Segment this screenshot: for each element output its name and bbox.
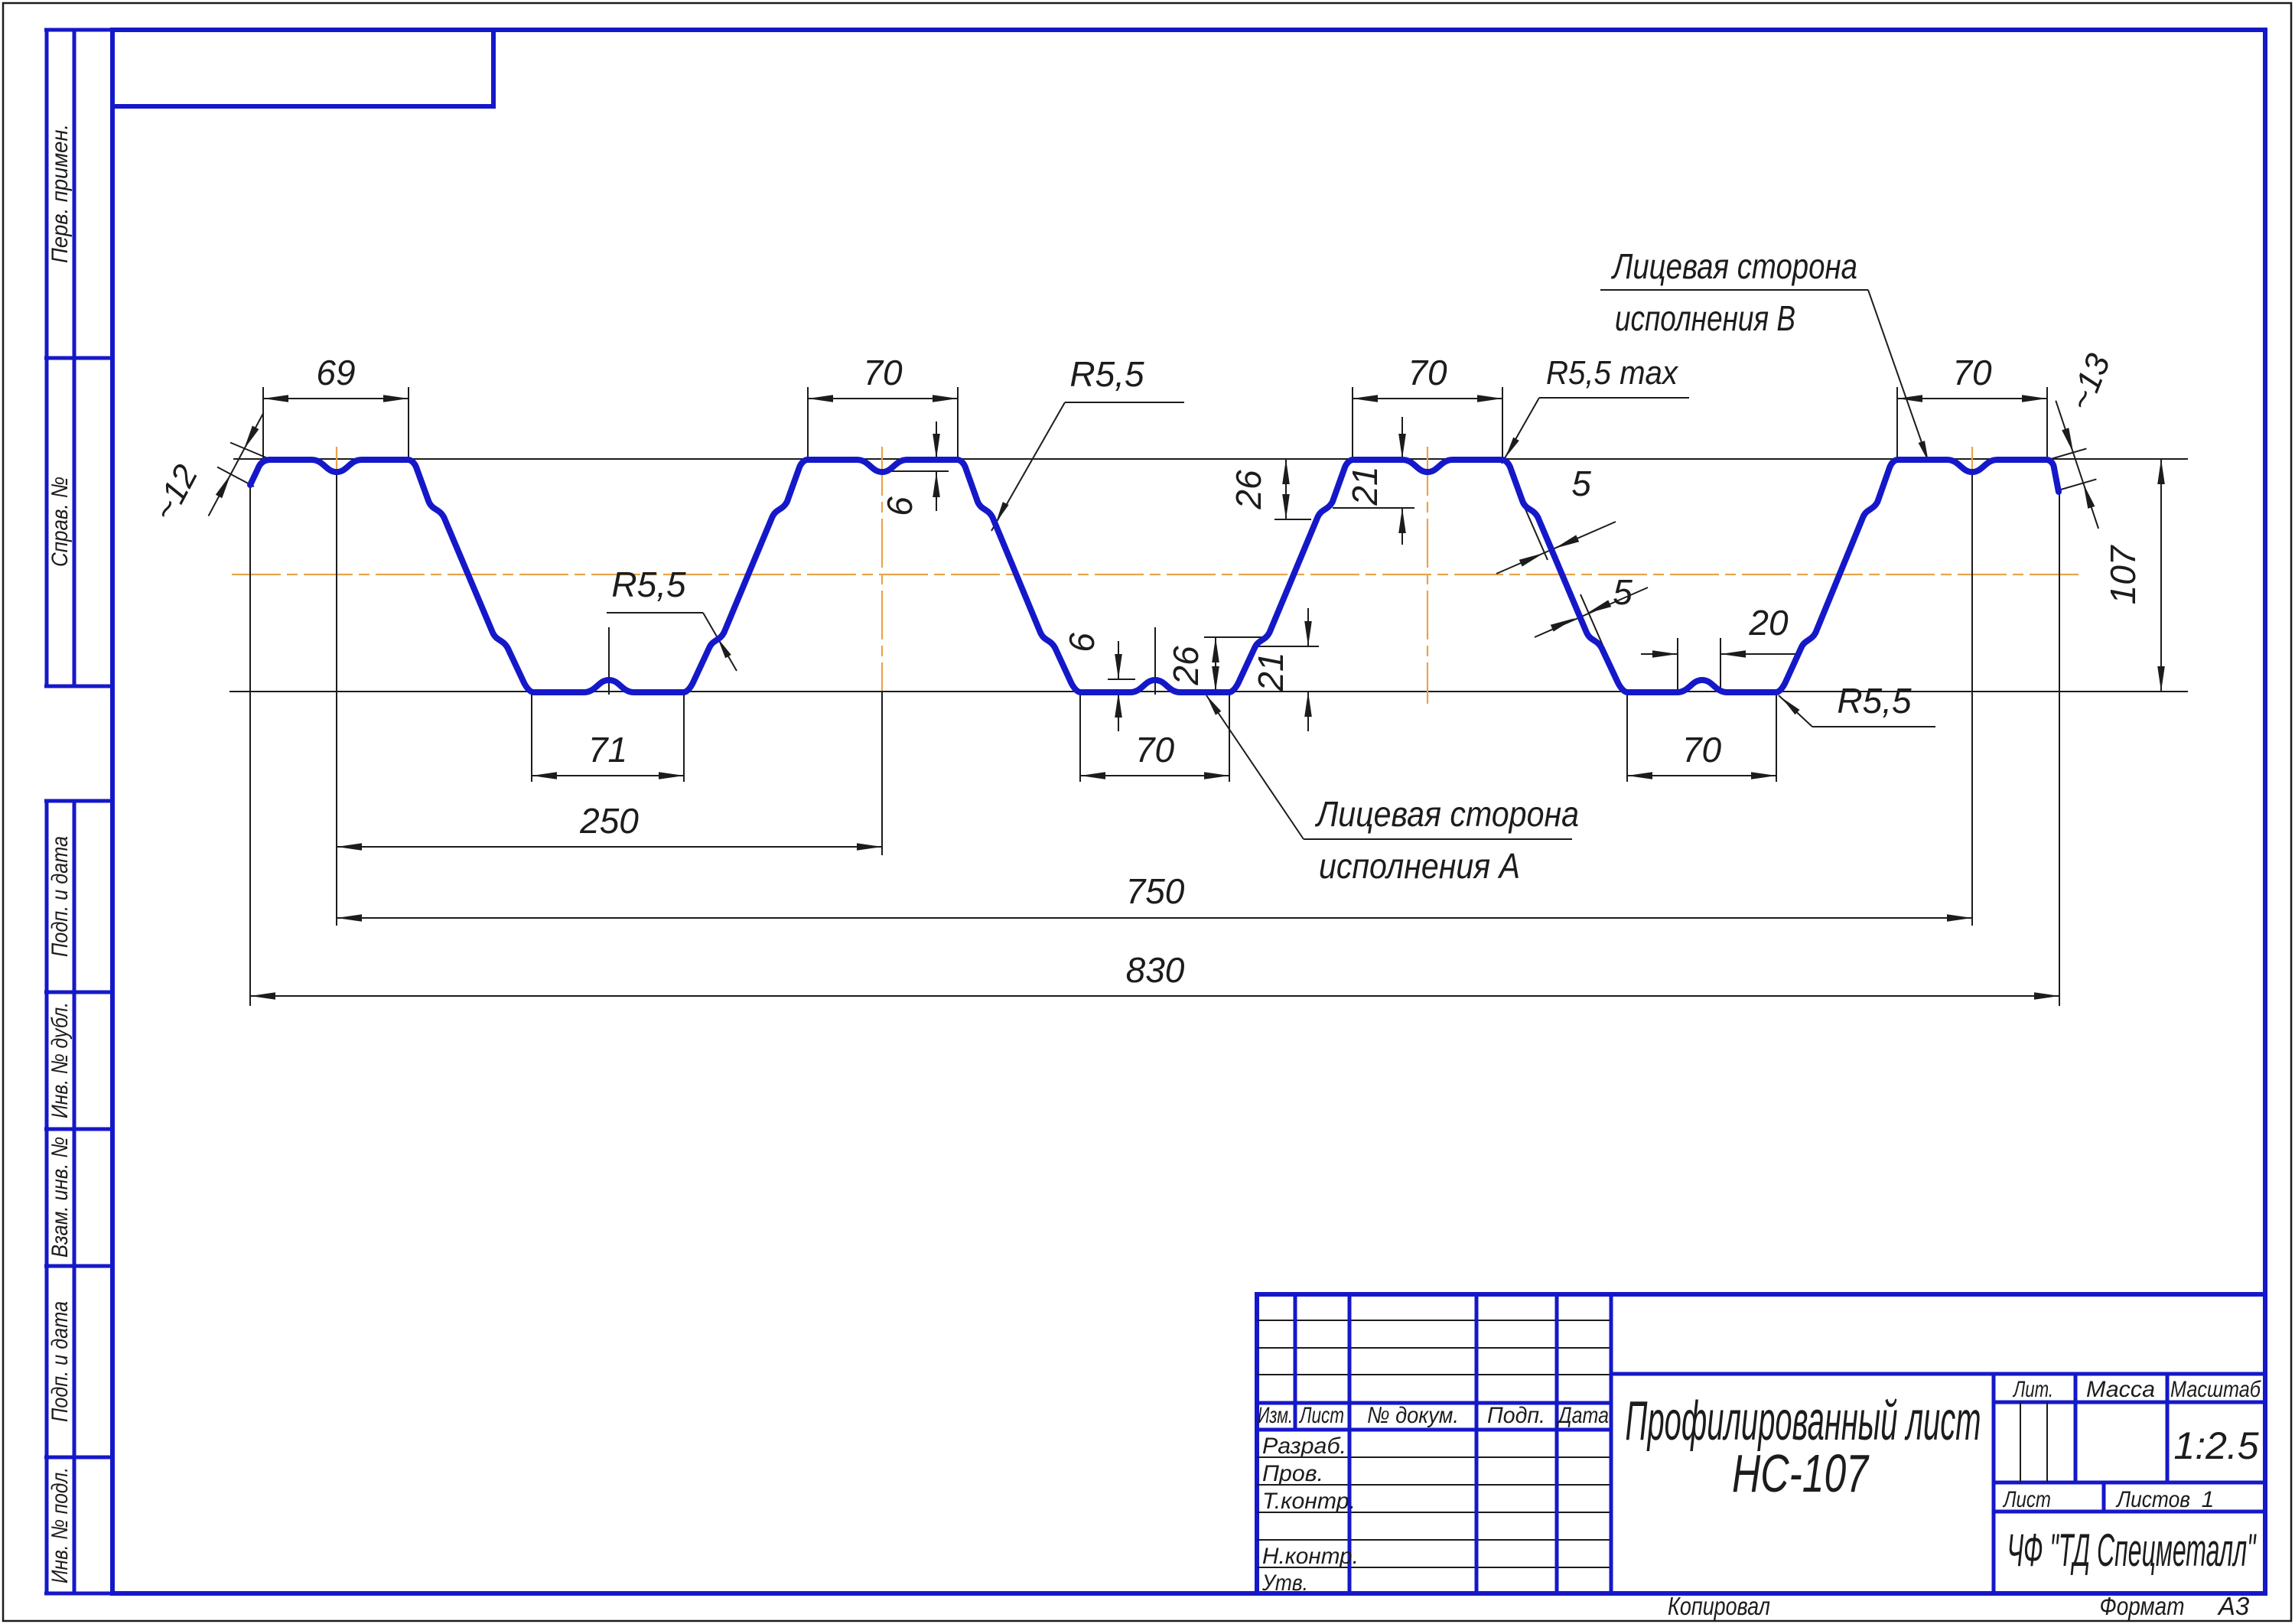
Lit cell thin dividers <box>2020 1402 2021 1482</box>
svg-text:Перв. примен.: Перв. примен. <box>47 124 73 263</box>
svg-text:Лицевая сторона: Лицевая сторона <box>1314 794 1579 834</box>
ext 70c L <box>1896 387 1898 459</box>
svg-text:6: 6 <box>1062 633 1102 653</box>
svg-text:Подп.: Подп. <box>1487 1403 1545 1428</box>
ext 70d L <box>1079 692 1081 782</box>
svg-text:Утв.: Утв. <box>1261 1570 1308 1596</box>
dim 69 top flange1 <box>263 398 409 399</box>
dim 20 bottom flange3 bump <box>1677 638 1678 694</box>
ext 70e L <box>1626 692 1628 782</box>
left column boxes group1 <box>44 28 112 32</box>
ext 250 right <box>881 691 883 855</box>
dim 750 <box>337 917 1972 919</box>
svg-text:Формат: Формат <box>2100 1592 2185 1620</box>
svg-text:107: 107 <box>2103 545 2143 604</box>
svg-text:69: 69 <box>316 353 355 392</box>
svg-text:НС-107: НС-107 <box>1732 1443 1870 1503</box>
svg-text:71: 71 <box>588 730 627 770</box>
svg-text:26: 26 <box>1229 470 1268 510</box>
dim 26 bottom <box>1215 637 1216 692</box>
dim ~12 left edge tail <box>230 443 269 460</box>
dim 107 overall height <box>2160 459 2162 692</box>
dim 70 top flange2 <box>808 398 958 399</box>
dim 250 pitch <box>337 846 882 848</box>
svg-text:Масштаб: Масштаб <box>2170 1377 2261 1402</box>
dim 6 bottom (bump height) <box>1118 641 1119 679</box>
svg-text:исполнения А: исполнения А <box>1319 846 1520 886</box>
ext 250/750 left <box>336 472 337 926</box>
centerline tick dimple4 <box>1971 447 1973 471</box>
svg-text:Инв. № дубл.: Инв. № дубл. <box>47 1002 73 1118</box>
dim 830 overall width <box>250 995 2059 997</box>
svg-text:1: 1 <box>2202 1487 2215 1512</box>
leader R5,5 (bottom flange3 right corner) <box>1812 726 1935 727</box>
svg-text:Листов: Листов <box>2115 1487 2190 1512</box>
svg-text:1:2.5: 1:2.5 <box>2173 1424 2258 1467</box>
svg-text:R5,5: R5,5 <box>611 565 686 604</box>
ext 70e R <box>1776 692 1777 782</box>
svg-text:№ докум.: № докум. <box>1367 1403 1459 1428</box>
svg-text:250: 250 <box>579 801 639 841</box>
Lit/Massa/Masshtab dividers <box>2074 1374 2078 1482</box>
svg-text:21: 21 <box>1345 466 1385 506</box>
svg-text:Справ. №: Справ. № <box>47 477 73 567</box>
svg-text:Т.контр.: Т.контр. <box>1262 1489 1356 1514</box>
svg-text:исполнения В: исполнения В <box>1615 298 1795 338</box>
ext 70d R <box>1229 692 1230 782</box>
vertical centerline dimple3 <box>1427 447 1428 704</box>
left column boxes group2 <box>44 799 112 803</box>
svg-text:Масса: Масса <box>2086 1377 2155 1402</box>
svg-text:70: 70 <box>863 353 903 392</box>
bump2 tick <box>1154 627 1156 695</box>
svg-text:R5,5: R5,5 <box>1837 681 1912 721</box>
dim 70 bottom flange3 <box>1627 775 1776 776</box>
svg-text:Пров.: Пров. <box>1262 1461 1323 1486</box>
bump1 tick <box>608 627 610 695</box>
dim 70 bottom flange2 <box>1080 775 1229 776</box>
svg-text:Взам. инв. №: Взам. инв. № <box>47 1137 73 1258</box>
svg-text:70: 70 <box>1682 730 1722 770</box>
title block right section lines <box>1611 1372 2265 1376</box>
svg-text:Разраб.: Разраб. <box>1262 1434 1346 1459</box>
dim 21 bottom <box>1307 608 1309 646</box>
ext 69 L <box>262 387 264 459</box>
svg-text:Подп. и дата: Подп. и дата <box>47 836 73 957</box>
horizontal centerline (orange dash-dot) <box>232 574 2082 575</box>
svg-text:5: 5 <box>1613 572 1633 612</box>
centerline tick dimple1 <box>336 447 337 473</box>
dim 26 top <box>1285 459 1287 519</box>
svg-text:70: 70 <box>1408 353 1447 392</box>
dim 5 lower jog web3 <box>1580 594 1607 656</box>
leader R5,5 max (flange3 corner) <box>1539 397 1689 399</box>
profiled sheet cross-section <box>250 460 2059 692</box>
svg-text:Н.контр.: Н.контр. <box>1262 1544 1359 1569</box>
dim 6 top (dimple depth) <box>936 421 937 459</box>
svg-text:Подп. и дата: Подп. и дата <box>47 1301 73 1422</box>
ext 70a L <box>807 387 809 459</box>
dim 21 top <box>1401 417 1403 459</box>
svg-text:750: 750 <box>1126 871 1185 911</box>
bottom reference line <box>229 691 2188 692</box>
svg-text:Изм.: Изм. <box>1258 1403 1293 1428</box>
svg-text:Лист: Лист <box>2002 1487 2051 1512</box>
ext 69 R <box>408 387 409 459</box>
svg-text:Лист: Лист <box>1298 1403 1344 1428</box>
top reference line <box>233 458 2188 460</box>
dim 71 bottom flange1 <box>532 775 684 776</box>
svg-text:Профилированный лист: Профилированный лист <box>1626 1391 1981 1452</box>
svg-text:70: 70 <box>1135 730 1175 770</box>
ext 71 R <box>683 692 685 782</box>
svg-text:21: 21 <box>1251 652 1291 692</box>
svg-text:Дата: Дата <box>1556 1403 1609 1428</box>
ext 70b R <box>1502 387 1503 459</box>
dim 5 upper jog web3 <box>1521 499 1548 560</box>
svg-text:6: 6 <box>880 496 920 516</box>
leader R5,5 (web2 upper jog) <box>1065 402 1184 403</box>
leader R5,5 (bottom, ascending web1 jog) <box>607 612 703 613</box>
svg-text:R5,5 max: R5,5 max <box>1546 354 1679 392</box>
svg-text:Инв. № подл.: Инв. № подл. <box>47 1467 73 1583</box>
ext 830 right <box>2059 492 2060 1006</box>
svg-text:А3: А3 <box>2217 1592 2250 1620</box>
vertical centerline dimple2 <box>881 447 883 691</box>
dim 70 top flange3 <box>1353 398 1502 399</box>
ext 70a R <box>957 387 959 459</box>
svg-text:Лицевая сторона: Лицевая сторона <box>1610 246 1857 286</box>
dim 70 top flange4 <box>1897 398 2047 399</box>
title block thin row lines (revision area) <box>1257 1320 1611 1321</box>
svg-text:R5,5: R5,5 <box>1069 354 1144 394</box>
title block outer <box>1257 1294 2265 1593</box>
svg-text:5: 5 <box>1571 464 1591 503</box>
ext 750 right <box>1971 472 1973 926</box>
svg-text:26: 26 <box>1166 646 1206 686</box>
svg-text:Копировал: Копировал <box>1668 1592 1770 1620</box>
svg-text:70: 70 <box>1952 353 1992 392</box>
ext 830 left <box>249 485 251 1006</box>
top-left document box <box>112 30 493 106</box>
dim ~13 right edge tail <box>2046 448 2086 461</box>
svg-text:830: 830 <box>1126 950 1185 990</box>
svg-text:20: 20 <box>1748 603 1789 643</box>
ext 70b L <box>1352 387 1353 459</box>
title block blue verticals <box>1294 1294 1297 1430</box>
svg-text:ЧФ "ТД Спецметалл": ЧФ "ТД Спецметалл" <box>2007 1525 2257 1576</box>
ext 70c R <box>2046 387 2048 459</box>
svg-text:Лит.: Лит. <box>2013 1377 2053 1402</box>
title block header row lines <box>1257 1401 1611 1405</box>
title block thin row lines (staff area) <box>1257 1456 1611 1458</box>
ext 71 L <box>531 692 532 782</box>
